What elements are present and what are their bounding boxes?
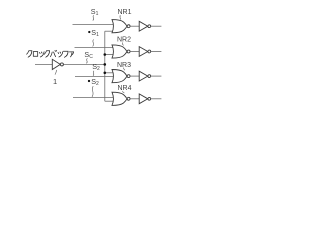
wire SC vertical bus bbox=[104, 31, 106, 101]
wire clock buffer input bbox=[35, 63, 52, 65]
wire /S2 line to NR4 top input bbox=[73, 96, 115, 98]
wire /S1 line to NR2 top input bbox=[75, 47, 115, 49]
wire NR1 bottom input stub bbox=[105, 30, 114, 32]
フ bbox=[63, 51, 68, 57]
wire S2 line to NR3 bottom input bbox=[75, 75, 115, 77]
leader NR2 bbox=[122, 42, 123, 45]
op/gate NR2 bbox=[112, 45, 130, 58]
op/gate NR3 bbox=[112, 70, 130, 83]
brace under S1 bbox=[93, 15, 94, 20]
label クロックバッファ (drawn as paths, 8 glyphs) bbox=[27, 50, 74, 57]
inverter row4 bbox=[130, 94, 161, 104]
clock buffer bubble bbox=[60, 63, 63, 66]
brace under /S2 bbox=[92, 86, 93, 97]
ァ bbox=[69, 52, 73, 57]
ロ bbox=[33, 52, 37, 57]
svg-text:S2: S2 bbox=[91, 77, 99, 87]
clock buffer triangle 1 bbox=[52, 59, 60, 69]
svg-text:NR1: NR1 bbox=[118, 9, 132, 16]
op/gate NR4 bbox=[112, 92, 130, 105]
svg-text:NR3: NR3 bbox=[117, 62, 131, 69]
wire NR4 bottom input stub bbox=[105, 100, 114, 102]
brace under /S1 bbox=[93, 39, 94, 46]
inverter row1 bbox=[130, 21, 161, 31]
inverter row2 bbox=[130, 47, 161, 57]
op/gate NR1 bbox=[112, 20, 130, 33]
svg-text:S1: S1 bbox=[91, 7, 99, 17]
leader from buffer to label 1 bbox=[55, 70, 57, 75]
label /S1 with bullet bbox=[88, 31, 90, 33]
junction dot NR2 stub bbox=[104, 53, 107, 56]
ク bbox=[27, 51, 32, 58]
svg-text:S2: S2 bbox=[92, 62, 100, 72]
svg-text:NR2: NR2 bbox=[117, 37, 131, 44]
ッ bbox=[39, 52, 44, 57]
leader NR1 bbox=[119, 15, 122, 19]
leader NR4 bbox=[123, 91, 125, 93]
ク bbox=[44, 51, 49, 58]
inverter row3 bbox=[130, 71, 161, 81]
label /S2 with bullet bbox=[88, 80, 90, 82]
brace under S2 bbox=[93, 71, 94, 76]
junction dot NR3 stub bbox=[104, 72, 107, 75]
leader NR3 bbox=[124, 68, 125, 71]
wire NR2 bottom input stub bbox=[105, 54, 114, 56]
brace under SC bbox=[86, 58, 87, 63]
wire NR3 top input stub bbox=[105, 72, 114, 74]
wire S1 line to NR1 top input bbox=[73, 23, 115, 25]
wire SC from buffer to bus bbox=[64, 63, 105, 65]
ッ bbox=[58, 52, 63, 57]
junction dot SC feed bbox=[104, 63, 107, 66]
svg-text:1: 1 bbox=[53, 77, 57, 86]
バ bbox=[50, 50, 56, 56]
svg-text:S1: S1 bbox=[91, 28, 99, 38]
svg-text:SC: SC bbox=[84, 50, 93, 60]
svg-text:NR4: NR4 bbox=[118, 85, 132, 92]
